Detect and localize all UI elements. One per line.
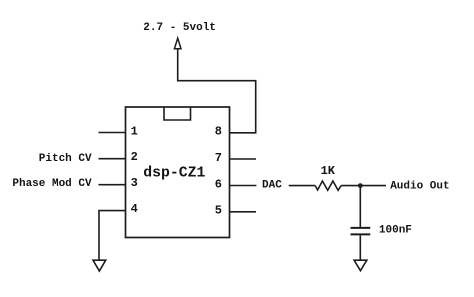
svg-text:4: 4 [131, 202, 138, 216]
svg-text:Phase Mod CV: Phase Mod CV [12, 178, 92, 190]
pin number 6 [215, 177, 222, 191]
value label 1K [321, 164, 336, 178]
svg-text:8: 8 [215, 125, 222, 139]
pin number 7 [215, 151, 222, 165]
net label Audio Out [390, 180, 449, 192]
svg-text:Audio Out: Audio Out [390, 180, 449, 192]
wire pin 7 stub [230, 158, 257, 160]
wire pin 6 stub [230, 185, 257, 187]
pin number 8 [215, 125, 222, 139]
svg-text:100nF: 100nF [379, 225, 412, 237]
U1 pin-1 index notch [164, 107, 191, 120]
pin number 3 [131, 176, 138, 190]
svg-text:6: 6 [215, 177, 222, 191]
op-amp U1 dsp-CZ1 body [126, 107, 230, 238]
wire pin 2 (Pitch CV) [99, 158, 126, 160]
node label Phase Mod CV [12, 178, 92, 190]
net label DAC [262, 180, 282, 192]
node label Pitch CV [39, 153, 92, 165]
svg-text:dsp-CZ1: dsp-CZ1 [143, 166, 205, 182]
wire pin 4 to ground [99, 211, 126, 260]
capacitor C1 plates [351, 228, 371, 235]
svg-text:7: 7 [215, 151, 222, 165]
wire capacitor to ground [359, 235, 361, 260]
svg-text:1K: 1K [321, 164, 336, 178]
svg-text:3: 3 [131, 176, 138, 190]
resistor R1 1K [315, 181, 341, 190]
wire resistor to node A [341, 185, 360, 187]
U1 value label dsp-CZ1 [143, 166, 205, 182]
ground symbol (pin 4) [93, 260, 106, 271]
ground symbol (capacitor) [354, 260, 367, 271]
wire pin 3 (Phase Mod CV) [99, 184, 126, 186]
net label 2.7 - 5volt [143, 22, 216, 34]
pin number 4 [131, 202, 138, 216]
pin number 1 [131, 124, 138, 138]
wire DAC to resistor [289, 185, 316, 187]
svg-text:DAC: DAC [262, 180, 282, 192]
svg-text:1: 1 [131, 124, 138, 138]
pin number 2 [131, 150, 138, 164]
wire pin 8 to power riser [178, 49, 256, 133]
wire pin 5 stub [230, 211, 257, 213]
wire pin 1 stub [99, 132, 126, 134]
wire node A to Audio Out [360, 185, 386, 187]
svg-text:2.7 - 5volt: 2.7 - 5volt [143, 22, 216, 34]
power arrow head [174, 38, 181, 49]
wire node A down to capacitor [359, 186, 361, 227]
value label 100nF [379, 225, 412, 237]
svg-text:Pitch CV: Pitch CV [39, 153, 92, 165]
junction node A [358, 183, 363, 188]
svg-text:2: 2 [131, 150, 138, 164]
svg-text:5: 5 [215, 203, 222, 217]
pin number 5 [215, 203, 222, 217]
